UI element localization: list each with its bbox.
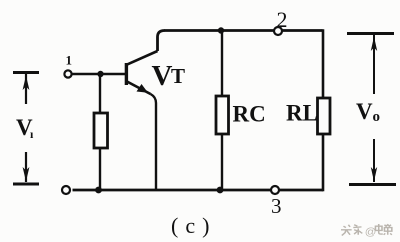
Vo lower lead with down arrow [373,139,375,182]
Vo upper lead with up arrow [373,35,375,94]
terminal 3 open circle [271,186,279,194]
terminal open circle bottom left [62,186,70,194]
wire top rail [164,29,323,32]
wire R1 to bottom rail [99,148,101,190]
svg-text:V: V [356,99,373,124]
transistor VT emitter diagonal with arrow [127,82,151,95]
svg-text:1: 1 [66,53,73,68]
wire emitter down to bottom rail [151,94,157,190]
wire top rail corner down to RL [322,29,325,99]
wire RL bottom [322,134,325,191]
node base junction [97,71,103,77]
wire collector up to top rail [158,31,165,52]
svg-text:o: o [373,109,381,125]
node RC bottom junction [217,187,224,194]
wire RC bottom [221,134,223,190]
svg-text:3: 3 [271,194,282,218]
node R1 bottom junction [95,187,102,194]
svg-text:RL: RL [286,101,318,126]
resistor RL [318,98,331,134]
transistor VT collector diagonal [127,51,158,65]
char chao [384,225,392,235]
terminal 2 open circle [274,27,282,35]
Vo symbol bottom bar [349,183,396,186]
svg-text:RC: RC [233,102,266,127]
Vi symbol bottom bar [13,183,39,186]
resistor R1 [94,113,108,148]
svg-text:V: V [152,60,173,92]
terminal 1 open circle [64,70,71,77]
wire RC top [221,31,223,98]
resistor RC [216,96,229,134]
wire bottom rail [73,189,324,192]
node RC top junction [218,27,224,33]
svg-text:(c): (c) [171,213,216,238]
Vo symbol top bar [347,32,394,35]
wire base input [72,73,125,76]
svg-text:T: T [171,64,185,88]
char dian [375,224,382,234]
char tou [341,225,352,236]
Vi lower lead with down arrow [25,152,27,182]
Vi symbol top bar [13,71,39,74]
watermark 头条@电巢 (approximated strokes, no CJK font available) [341,224,392,238]
transistor Q VT base bar [125,63,128,85]
char tiao [353,225,362,235]
wire junction to R1 [99,74,101,114]
Vi upper lead with up arrow [25,74,27,104]
